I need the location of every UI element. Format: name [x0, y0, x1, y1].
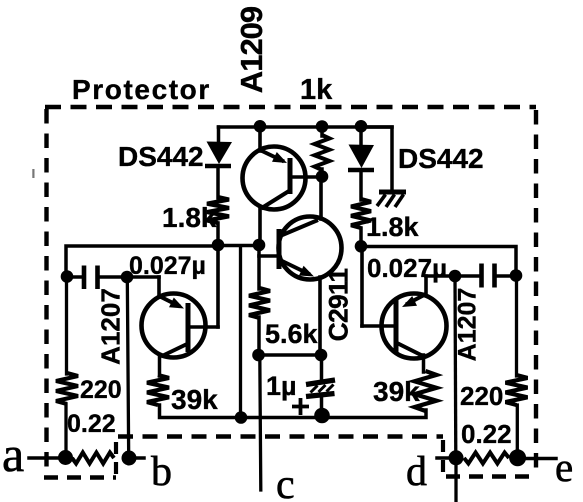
wire R3 to node E — [359, 228, 363, 246]
svg-text:220: 220 — [80, 376, 122, 404]
svg-text:d: d — [406, 449, 427, 495]
wire Q3 collector to R8 — [422, 355, 426, 372]
svg-text:A1207: A1207 — [454, 288, 482, 362]
plus sign of C1 — [292, 398, 309, 415]
transistor Q4 C2911 — [259, 178, 342, 355]
label 1k — [300, 74, 333, 106]
terminal a label — [2, 426, 24, 482]
resistor R7 0.22 left — [72, 453, 114, 464]
svg-text:c: c — [276, 462, 295, 502]
node A (left base node) — [212, 239, 225, 252]
svg-text:a: a — [2, 426, 24, 482]
label C2911 rotated — [324, 269, 354, 342]
resistor R8 39k right — [415, 371, 437, 411]
wire node B down-left to bottom rail — [239, 246, 242, 417]
label 0.22 left — [67, 410, 116, 438]
node G (Q2 emitter / b riser) — [121, 271, 134, 284]
protector box dashed border — [44, 107, 537, 478]
wire C3 to node I — [497, 274, 516, 278]
resistor R10 0.22 right — [464, 453, 509, 464]
node terminal a — [58, 450, 73, 465]
resistor R4 5.6k — [249, 288, 270, 318]
label 0.027u right — [367, 253, 447, 283]
svg-text:5.6k: 5.6k — [265, 319, 319, 349]
svg-text:e: e — [555, 444, 573, 490]
label A1209 rotated — [234, 6, 269, 93]
svg-text:1.8k: 1.8k — [366, 212, 420, 242]
wire R6 to terminal a node — [64, 404, 67, 457]
wire D1 cathode to R 1.8k — [216, 168, 220, 198]
wire R4 to node C — [257, 317, 261, 355]
diode D2 DS442 — [348, 145, 374, 171]
node bottom rail C1 — [314, 408, 330, 424]
label 1.8k left — [162, 202, 217, 233]
wire node I to R9 — [515, 276, 518, 376]
label DS442 right — [398, 143, 484, 174]
label 1u — [266, 371, 297, 401]
wire top supply rail — [219, 125, 393, 129]
wire bottom rail — [160, 405, 427, 418]
transistor Q2 A1207 left — [127, 277, 218, 358]
wire node H to C3 — [455, 274, 479, 278]
wire R9 to terminal e node — [516, 405, 519, 457]
terminal e label — [555, 444, 573, 490]
svg-text:39k: 39k — [373, 376, 420, 407]
wire R1 to Q1 base node — [320, 169, 324, 176]
wire R2 to node A — [216, 223, 220, 245]
resistor R3 1.8k right — [351, 199, 371, 228]
node E (right base node) — [355, 240, 368, 253]
label 0.22 right — [461, 419, 512, 449]
capacitor C2 0.027uF left — [84, 266, 98, 290]
terminal c label — [276, 462, 295, 502]
terminal d label — [406, 449, 427, 495]
wire node B to R4 — [257, 245, 261, 289]
resistor R6 220 left — [56, 373, 78, 404]
wire D2 anode lead — [359, 127, 363, 146]
node terminal b — [122, 451, 137, 466]
node terminal e — [509, 449, 526, 466]
wire d down lead — [454, 458, 457, 502]
svg-text:C2911: C2911 — [324, 269, 354, 342]
svg-text:DS442: DS442 — [118, 141, 204, 172]
label A1207 left rotated — [96, 288, 126, 365]
capacitor C3 0.027uF right — [482, 264, 495, 288]
resistor R2 1.8k left — [207, 197, 229, 223]
svg-text:1k: 1k — [300, 74, 333, 106]
scan artifact left edge — [32, 169, 34, 178]
wire terminal b stub — [129, 456, 144, 460]
node C (5.6k bottom) — [252, 349, 265, 362]
label 39k left — [171, 384, 218, 415]
wire C1 to bottom rail — [320, 396, 324, 414]
resistor R9 220 right — [506, 375, 528, 405]
capacitor C1 1uF polarized — [306, 380, 335, 397]
node D (Q4 emitter / C1 top) — [315, 349, 328, 362]
wire node A to node B — [218, 244, 259, 248]
node rail-D2 — [355, 120, 368, 133]
label 5.6k — [265, 319, 319, 349]
label A1207 right rotated — [454, 288, 482, 362]
node terminal d — [449, 450, 464, 465]
wire Q2 collector to R5 — [158, 356, 162, 376]
ground chassis symbol — [377, 192, 406, 207]
svg-text:A1207: A1207 — [96, 288, 126, 365]
wire node F to R6 — [65, 277, 68, 374]
wire D1 anode lead — [217, 127, 221, 143]
node rail-1k — [316, 120, 329, 133]
transistor Q3 A1207 right — [362, 276, 455, 359]
svg-text:39k: 39k — [171, 384, 218, 415]
wire Q3 base riser — [360, 247, 364, 326]
node I right cap right plate — [510, 269, 523, 282]
wire terminal e lead — [518, 457, 556, 461]
wire node F to C2 — [67, 275, 81, 279]
wire node E right run — [361, 247, 516, 276]
svg-text:0.22: 0.22 — [461, 419, 512, 449]
node H (Q3 emitter / d riser) — [449, 270, 462, 283]
resistor R5 39k left — [147, 375, 169, 405]
label 220 right — [460, 381, 503, 411]
label 1.8k right — [366, 212, 420, 242]
svg-text:0.22: 0.22 — [67, 410, 116, 438]
label Protector — [72, 74, 211, 105]
svg-text:1µ: 1µ — [266, 371, 297, 401]
wire Q2 base riser — [216, 246, 220, 327]
wire C2 to node G — [100, 275, 127, 279]
svg-text:DS442: DS442 — [398, 143, 484, 174]
terminal b label — [151, 449, 172, 495]
node Q1 base / R1 / Q4 collector — [316, 170, 329, 183]
diode D1 DS442 — [205, 142, 232, 167]
wire terminal a lead — [29, 456, 65, 460]
label DS442 left — [118, 141, 204, 172]
wire rail to ground — [361, 127, 392, 189]
svg-text:220: 220 — [460, 381, 503, 411]
wire terminal d stub — [437, 456, 456, 460]
wire node A left run — [66, 246, 218, 277]
svg-text:A1209: A1209 — [234, 6, 269, 93]
wire node D to C1 — [320, 355, 324, 381]
node bottom rail left — [235, 411, 248, 424]
wire D2 cathode to R 1.8k — [359, 172, 363, 200]
resistor R1 1k — [315, 135, 330, 170]
label 220 left — [80, 376, 122, 404]
wire node C to node D — [259, 353, 322, 357]
svg-text:Protector: Protector — [72, 74, 211, 105]
svg-text:0.027µ: 0.027µ — [367, 253, 447, 283]
wire rail to R1 — [320, 127, 324, 136]
label 0.027u left — [129, 252, 206, 280]
svg-text:b: b — [151, 449, 172, 495]
label 39k right — [373, 376, 420, 407]
wire terminal c riser — [260, 355, 261, 490]
node rail-Q1 emitter — [254, 120, 267, 133]
node F left cap left plate — [61, 270, 74, 283]
wire d riser — [453, 276, 457, 458]
transistor Q1 A1209 — [243, 126, 323, 245]
node B (Q1 collector node) — [253, 239, 266, 252]
svg-text:1.8k: 1.8k — [162, 202, 217, 233]
wire b riser — [127, 277, 128, 458]
